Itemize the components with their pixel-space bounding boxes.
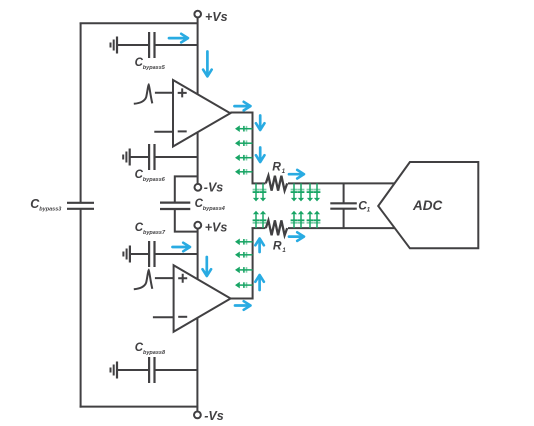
svg-text:bypass6: bypass6 bbox=[143, 177, 166, 183]
svg-text:-Vs: -Vs bbox=[204, 180, 224, 194]
svg-text:+Vs: +Vs bbox=[205, 10, 228, 24]
svg-text:1: 1 bbox=[367, 207, 371, 213]
wire top rail from resistor to ADC bbox=[288, 182, 395, 184]
capacitor C1 bbox=[330, 183, 371, 228]
resistor Rf top bbox=[266, 160, 287, 191]
blue arrow right below U2 output bbox=[235, 301, 251, 310]
blue arrow down beside U1 output vertical wire bbox=[256, 116, 265, 131]
wire top rail into resistor bbox=[252, 182, 266, 184]
svg-text:+Vs: +Vs bbox=[205, 221, 228, 235]
green kickback capacitor arrows above bottom rail bbox=[253, 211, 321, 228]
svg-text:bypass8: bypass8 bbox=[143, 350, 166, 356]
blue arrow right above Cbypass5 wire bbox=[169, 34, 188, 43]
svg-text:-Vs: -Vs bbox=[204, 409, 224, 423]
blue arrow down beside U1 output vertical wire lower bbox=[256, 148, 265, 163]
wire bottom rail from resistor to ADC bbox=[288, 227, 395, 229]
wire U1 negative supply rail down bbox=[197, 132, 199, 184]
ground for Cbypass7 bbox=[123, 246, 129, 263]
blue arrow right above U1 output bbox=[235, 102, 251, 111]
svg-text:1: 1 bbox=[282, 169, 286, 175]
blue arrow down beside U2 supply rail bbox=[203, 257, 212, 276]
svg-text:ADC: ADC bbox=[412, 198, 442, 213]
capacitor Cbypass3 bbox=[30, 197, 94, 213]
capacitor Cbypass4 with connecting wires bbox=[160, 176, 225, 231]
blue arrow up beside U2 output vertical wire bbox=[255, 239, 264, 253]
wire U2 output to corner and up bbox=[231, 228, 253, 298]
wire +Vs rail down to op-amp U2 bbox=[197, 229, 199, 279]
wire U1 output to corner and down bbox=[230, 113, 252, 184]
svg-text:bypass5: bypass5 bbox=[143, 65, 166, 71]
wire U2 noninverting input bbox=[155, 277, 174, 279]
node +Vs mid terminal bbox=[194, 221, 227, 235]
svg-text:1: 1 bbox=[282, 248, 286, 254]
resistor Rf bottom bbox=[266, 220, 287, 253]
node -Vs bottom terminal bbox=[194, 407, 224, 423]
green kickback capacitor arrows below top rail bbox=[253, 183, 321, 201]
wire U1 inverting input stub bbox=[154, 131, 173, 133]
svg-text:R: R bbox=[273, 238, 282, 252]
blue arrow right after bottom resistor bbox=[289, 232, 304, 241]
wire left rail upper segment bbox=[80, 23, 82, 203]
ground for Cbypass5 bbox=[111, 37, 118, 54]
svg-text:bypass3: bypass3 bbox=[39, 207, 61, 213]
svg-text:bypass4: bypass4 bbox=[203, 206, 225, 212]
capacitor Cbypass6 bbox=[130, 144, 198, 183]
ADC block bbox=[378, 162, 478, 248]
wire bottom horizontal to -Vs terminal bbox=[80, 406, 199, 408]
node +Vs top terminal bbox=[194, 10, 227, 24]
op-amp U1 bbox=[173, 80, 230, 147]
blue arrow down beside U1 supply rail bbox=[203, 52, 212, 77]
wire U1 noninverting input bbox=[155, 92, 173, 94]
svg-text:R: R bbox=[272, 160, 281, 174]
blue arrow right after top resistor bbox=[289, 170, 304, 179]
input spike symbol for U2 bbox=[134, 270, 153, 289]
blue arrow up beside U2 output vertical wire lower bbox=[255, 275, 264, 290]
svg-text:bypass7: bypass7 bbox=[143, 230, 166, 236]
blue arrow right above Cbypass7 wire bbox=[173, 243, 191, 252]
wire +Vs rail down to op-amp U1 bbox=[197, 17, 199, 94]
capacitor Cbypass8 bbox=[117, 342, 197, 383]
green kickback capacitor arrows on U2 output vertical wire bbox=[235, 239, 253, 289]
input spike symbol for U1 bbox=[134, 85, 153, 104]
node -Vs mid terminal bbox=[195, 180, 224, 194]
op-amp U2 bbox=[174, 265, 231, 332]
ground for Cbypass8 bbox=[111, 362, 118, 379]
wire U2 negative supply rail down bbox=[196, 318, 198, 407]
ground for Cbypass6 bbox=[123, 149, 130, 166]
green kickback capacitor arrows on U1 output vertical wire bbox=[235, 125, 253, 175]
wire left rail lower segment bbox=[80, 209, 82, 408]
wire U2 inverting input stub bbox=[153, 316, 174, 318]
wire bottom rail into resistor bbox=[252, 227, 266, 229]
wire top horizontal from left rail to +Vs rail bbox=[80, 22, 198, 24]
capacitor Cbypass7 bbox=[130, 222, 198, 267]
capacitor Cbypass5 bbox=[117, 32, 198, 71]
